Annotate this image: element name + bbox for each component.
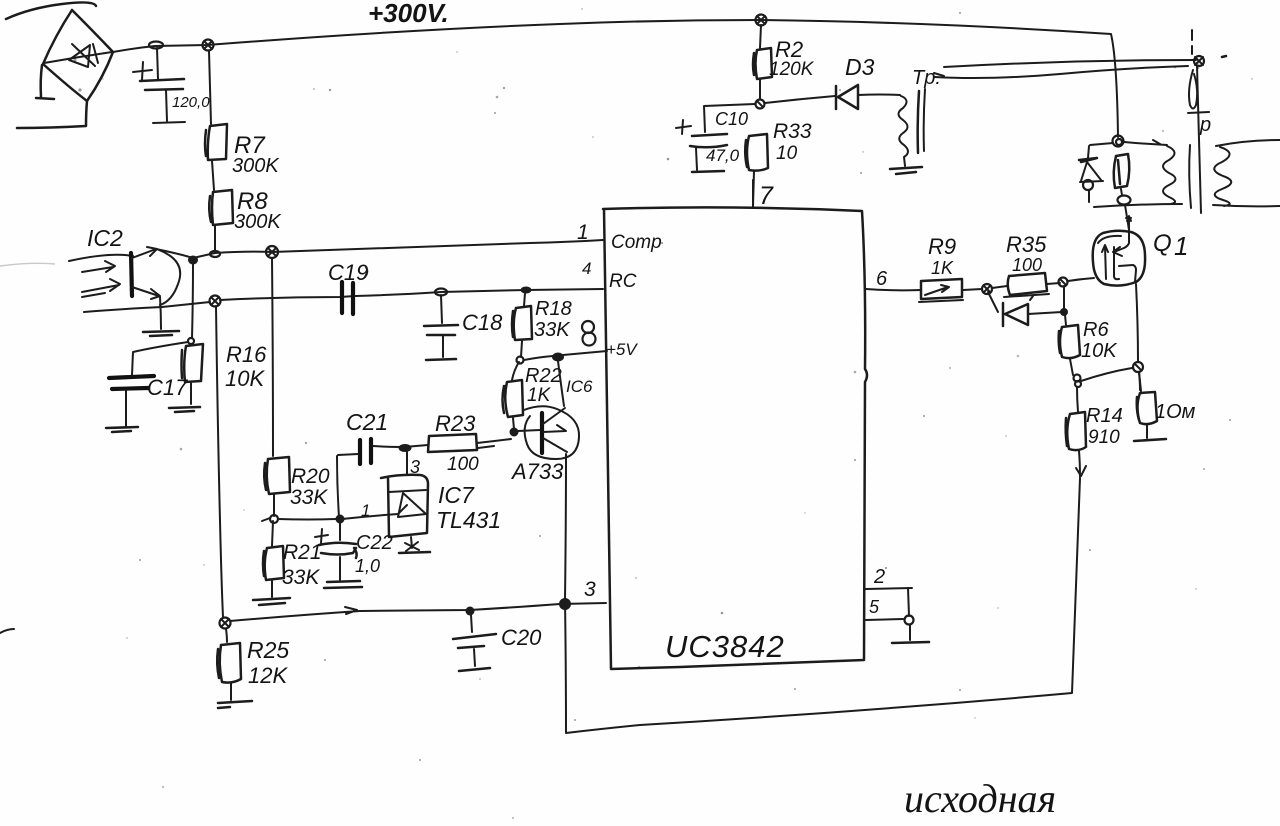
node (RC rail / R8 line junction) <box>210 296 221 307</box>
resistor R7 300K <box>205 51 280 177</box>
svg-text:R22: R22 <box>525 365 562 387</box>
ground (R shunt) <box>1134 439 1166 441</box>
capacitor C20 <box>453 615 542 671</box>
node (gate drive junction) <box>1059 278 1068 287</box>
svg-text:120K: 120K <box>769 59 815 80</box>
svg-text:33K: 33K <box>534 319 571 341</box>
svg-text:p: p <box>1199 114 1211 136</box>
svg-text:IC7: IC7 <box>438 482 475 508</box>
svg-text:+300V.: +300V. <box>368 0 449 28</box>
node (R2/C10/D3/R33 junction) <box>756 100 765 109</box>
wire (Q1 source down) <box>1136 284 1140 390</box>
svg-text:R35: R35 <box>1006 232 1047 257</box>
node (C18 tap) <box>435 289 447 296</box>
wire (R8 to Comp rail) <box>210 226 220 257</box>
pins 2/5 with ground <box>866 566 929 643</box>
svg-text:1K: 1K <box>527 385 552 406</box>
svg-text:R20: R20 <box>291 465 330 488</box>
wire Comp rail (pin 1) <box>156 240 603 258</box>
transformer core <box>1188 30 1211 213</box>
ground (bridge AC terminal) <box>36 65 54 99</box>
resistor R shunt 1 Ом <box>1137 372 1196 438</box>
svg-text:R6: R6 <box>1083 319 1109 341</box>
transformer secondary winding <box>1213 140 1280 206</box>
svg-text:3: 3 <box>584 578 596 601</box>
svg-text:R14: R14 <box>1086 405 1123 427</box>
svg-text:5: 5 <box>869 597 880 617</box>
wire (R8 line down to bottom rail) <box>216 306 223 617</box>
svg-text:300K: 300K <box>232 155 280 177</box>
pin 7 wire <box>753 180 774 210</box>
svg-text:Comp: Comp <box>611 232 662 253</box>
capacitor C21 <box>338 409 401 464</box>
wire (primary bottom rail) <box>1094 204 1182 207</box>
transformer Tp aux winding <box>890 67 941 174</box>
wire bottom rail (pin 3 net) <box>230 603 606 621</box>
svg-text:R23: R23 <box>435 411 476 436</box>
resistor R21 33K <box>263 521 322 597</box>
node (primary bottom) <box>1118 196 1131 205</box>
wire (C21 left to ref node) <box>337 456 339 517</box>
wire (left margin stub) <box>0 629 14 633</box>
bridge rectifier <box>43 10 113 101</box>
node (IC6 collector tap) <box>552 353 564 362</box>
svg-text:910: 910 <box>1088 427 1120 448</box>
svg-text:A733: A733 <box>510 459 564 484</box>
wire (node to primary top) <box>1124 140 1167 145</box>
svg-text:R21: R21 <box>283 541 322 564</box>
node (R20/R21 junction) <box>270 515 278 523</box>
svg-text:D3: D3 <box>845 54 875 80</box>
capacitor C18 <box>424 295 503 360</box>
diode (gate discharge) <box>988 292 1062 326</box>
node (filter cap tap) <box>149 42 163 49</box>
wire (stray dot right of primary node) <box>1222 56 1226 57</box>
capacitor C10 47,0 <box>676 104 755 172</box>
svg-text:4: 4 <box>582 259 591 278</box>
wire (node to zener) <box>1090 143 1113 145</box>
pin 1 label Comp <box>577 221 662 253</box>
svg-text:+5V: +5V <box>606 340 638 359</box>
resistor R33 10 <box>745 120 812 206</box>
ground (R21) <box>253 598 290 605</box>
capacitor C17 <box>109 342 188 426</box>
node A (+300V / R7 tap) <box>203 40 214 51</box>
svg-text:C22: C22 <box>356 532 393 554</box>
svg-text:R9: R9 <box>928 234 956 259</box>
svg-text:1K: 1K <box>931 258 954 278</box>
wire (R6 node to source node) <box>1081 368 1132 381</box>
svg-text:C21: C21 <box>346 409 388 435</box>
ground (R25) <box>218 701 252 708</box>
node 3 (pin 3 junction) <box>559 578 596 610</box>
node (R18/R22 junction) <box>517 357 524 364</box>
node (+300V / R2 tap) <box>756 15 767 26</box>
wire (to Q1 gate) <box>1068 278 1094 281</box>
svg-text:1: 1 <box>361 501 370 520</box>
wire (to Q1 drain) <box>1125 205 1131 230</box>
svg-text:300K: 300K <box>234 211 282 233</box>
pin 4 label RC <box>582 259 637 292</box>
resistor R22 1K <box>503 362 562 429</box>
transformer primary winding <box>1163 146 1176 204</box>
node B (Comp rail / R20 tap) <box>266 246 278 258</box>
svg-text:47,0: 47,0 <box>706 146 740 165</box>
ground (C17) <box>106 427 138 432</box>
node (R9/R35 junction) <box>963 284 1007 294</box>
capacitor C22 1,0 <box>315 523 393 588</box>
svg-text:6: 6 <box>876 268 888 290</box>
capacitor 120,0 <box>133 48 210 123</box>
node (bottom rail corner) <box>220 618 231 629</box>
node (IC6 base junction) <box>510 428 519 437</box>
svg-text:RC: RC <box>609 271 637 292</box>
svg-text:2: 2 <box>873 566 885 588</box>
svg-text:1: 1 <box>577 221 589 244</box>
wire (IC6 emitter down through node 3) <box>565 454 566 732</box>
svg-text:UC3842: UC3842 <box>665 629 785 664</box>
svg-text:C20: C20 <box>501 625 542 650</box>
node (R6 top junction) <box>1060 286 1068 316</box>
svg-text:исходная: исходная <box>904 776 1056 821</box>
svg-text:1,0: 1,0 <box>355 556 380 576</box>
node (C22 tap) <box>336 515 345 524</box>
svg-text:C17: C17 <box>147 375 188 400</box>
caption исходная <box>904 776 1056 821</box>
svg-text:C19: C19 <box>328 260 368 285</box>
node (primary top) <box>1194 56 1204 66</box>
resistor R9 1K <box>919 234 963 302</box>
pin 6 wire <box>866 268 921 290</box>
node (Q1 source junction) <box>1133 362 1143 372</box>
resistor R20 33K <box>264 258 330 516</box>
wire (R14 to bottom return rail) <box>566 478 1080 733</box>
node (C21/R23/TL431 junction) <box>399 444 412 452</box>
svg-text:Q: Q <box>1153 230 1172 257</box>
svg-text:100: 100 <box>447 454 479 475</box>
svg-text:TL431: TL431 <box>436 507 501 533</box>
resistor R14 910 <box>1066 387 1123 477</box>
svg-text:1: 1 <box>1174 231 1188 261</box>
svg-text:C18: C18 <box>462 310 503 335</box>
resistor R6 10K <box>1059 315 1119 375</box>
node (R18 tap) <box>521 287 532 294</box>
resistor R16 10K <box>182 264 268 404</box>
node (R16 tap) <box>188 256 198 265</box>
svg-text:R33: R33 <box>773 120 812 143</box>
wire AC input top-left <box>6 2 96 19</box>
svg-text:10K: 10K <box>1081 340 1118 362</box>
svg-text:1Ом: 1Ом <box>1155 401 1196 423</box>
wire (bridge output bottom) <box>17 101 87 128</box>
wire +300V rail <box>113 0 1118 137</box>
resistor R18 33K <box>512 293 572 357</box>
zener diode (snubber) <box>1079 146 1103 202</box>
svg-text:IC6: IC6 <box>566 377 593 396</box>
node (snubber top) <box>1113 136 1124 147</box>
resistor R35 100 <box>1004 232 1060 297</box>
svg-text:C10: C10 <box>715 109 748 129</box>
resistor (snubber) <box>1114 154 1130 195</box>
resistor R25 12K <box>217 629 289 700</box>
IC U1 UC3842 <box>603 207 867 669</box>
svg-text:120,0: 120,0 <box>172 94 210 111</box>
ground (R16) <box>169 407 200 412</box>
svg-text:33K: 33K <box>290 486 328 509</box>
svg-text:7: 7 <box>759 182 774 210</box>
optocoupler IC2 <box>69 225 180 329</box>
resistor R23 100 <box>404 411 511 475</box>
wire (aux area to primary top, double line) <box>934 60 1196 78</box>
resistor R2 120K <box>753 25 815 98</box>
svg-text:R16: R16 <box>226 342 267 367</box>
transistor IC6 A733 <box>510 361 593 484</box>
ground (IC2 emitter) <box>143 331 179 336</box>
svg-text:33K: 33K <box>282 566 320 589</box>
svg-text:12K: 12K <box>248 663 288 688</box>
svg-text:R18: R18 <box>535 298 572 320</box>
wire (ref rail R20 to TL431) <box>262 518 344 521</box>
node (R6/R14 junction) <box>1074 375 1082 388</box>
node (C20 tap) <box>466 607 475 616</box>
wire RC rail (pin 4) <box>162 289 603 307</box>
wire +5V (pin 8) <box>524 340 638 360</box>
resistor R8 300K <box>209 161 282 233</box>
pin 8 label <box>582 321 596 346</box>
capacitor C19 <box>328 260 368 314</box>
svg-text:10: 10 <box>776 143 798 164</box>
svg-text:100: 100 <box>1012 255 1042 275</box>
svg-text:10K: 10K <box>225 366 265 391</box>
shunt regulator IC7 TL431 <box>342 452 501 553</box>
diode D3 <box>765 54 900 109</box>
svg-text:IC2: IC2 <box>87 225 123 251</box>
svg-text:R25: R25 <box>247 637 289 663</box>
MOSFET Q1 <box>1093 216 1189 286</box>
